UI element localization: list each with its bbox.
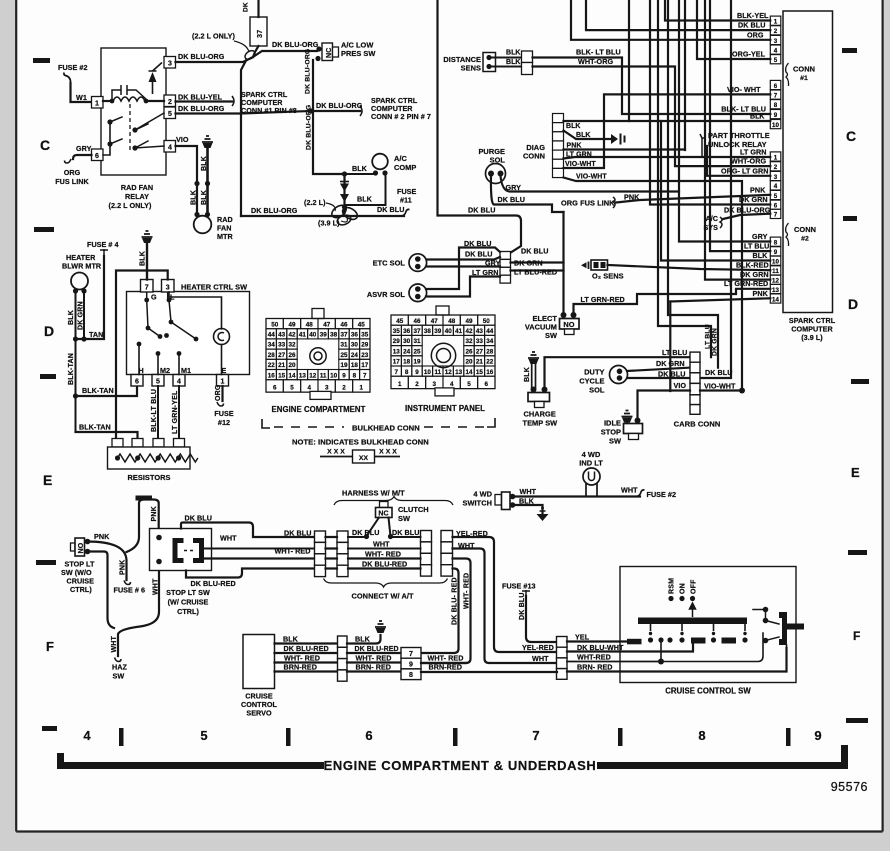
CONN1 pin 2 box [770, 26, 781, 35]
leader 2.2L arrow [326, 203, 335, 211]
svg-text:38: 38 [424, 328, 432, 335]
servo wire WHT-RED [275, 661, 338, 663]
wire into 37 from top [257, 0, 259, 17]
svg-text:12: 12 [309, 372, 317, 379]
svg-text:1: 1 [221, 379, 225, 386]
svg-text:10: 10 [772, 122, 779, 129]
svg-text:4: 4 [308, 385, 312, 392]
svg-text:39: 39 [320, 332, 328, 339]
svg-text:8: 8 [409, 672, 413, 679]
heater ctrl sw outline [127, 292, 250, 375]
svg-text:SOL: SOL [589, 386, 605, 395]
svg-text:(3.9 L): (3.9 L) [318, 219, 340, 228]
relay pole column [103, 122, 110, 155]
svg-text:D: D [848, 296, 858, 312]
fuse #2 right hook [635, 490, 645, 497]
idle stop sw body [624, 424, 643, 434]
conn2 brace [786, 223, 789, 246]
cruise selector arrow [690, 603, 696, 617]
svg-text:DK BLU-RED: DK BLU-RED [362, 560, 407, 569]
CONN2 pin 1 box [770, 152, 781, 161]
relay wire coil to pin2 [146, 100, 164, 102]
svg-text:BLK-LT BLU: BLK-LT BLU [151, 389, 158, 432]
cruise right dot low [763, 638, 769, 644]
relay pin 1 box [92, 97, 104, 109]
svg-text:41: 41 [455, 328, 463, 335]
svg-text:VIO-WHT: VIO-WHT [565, 161, 596, 168]
svg-text:6: 6 [135, 379, 139, 386]
cruise row dot 2 [667, 637, 672, 642]
svg-text:26: 26 [465, 348, 473, 355]
svg-text:DK BLU-ORG: DK BLU-ORG [178, 52, 225, 61]
svg-text:WHT-RED: WHT-RED [577, 653, 611, 662]
inline column A cell 1 [315, 531, 326, 542]
svg-text:3: 3 [774, 38, 778, 45]
svg-text:MTR: MTR [217, 232, 233, 241]
svg-text:9: 9 [415, 369, 419, 376]
row marker dash left C [33, 58, 50, 63]
etc terminal bottom [415, 264, 421, 270]
svg-text:CLUTCH: CLUTCH [398, 505, 429, 514]
svg-text:DK BLU-YEL: DK BLU-YEL [178, 93, 223, 102]
resistor block outline [108, 447, 191, 469]
relay pin 6 box [92, 149, 104, 161]
bus wire vertical x571 ORG [571, 0, 770, 40]
servo wire DK BLU-RED [275, 652, 338, 654]
O2 sensor body [591, 260, 608, 270]
svg-text:DK BLU: DK BLU [392, 528, 419, 537]
w-cruise dashed link [184, 550, 193, 552]
resistor node 1 [115, 455, 120, 460]
inline column C cell 3 [421, 553, 432, 564]
svg-text:42: 42 [288, 332, 296, 339]
engine compartment bulkhead grid center circle [310, 348, 326, 364]
svg-text:TAN: TAN [89, 330, 103, 339]
wire WHT row2 [204, 548, 337, 550]
wire DK BLU-WHT to cruise [567, 644, 693, 652]
org fus link break symbol [613, 197, 615, 208]
svg-text:YEL: YEL [575, 633, 590, 642]
wire BRN-RED to cruise [567, 648, 787, 672]
cruise stem dot c small [712, 632, 715, 635]
svg-text:DK BLU-ORG: DK BLU-ORG [724, 206, 771, 215]
svg-text:DK BLU: DK BLU [377, 205, 404, 214]
svg-text:PNK: PNK [94, 532, 110, 541]
connector 798 cell 7 [401, 648, 421, 659]
svg-text:#2: #2 [801, 236, 809, 243]
svg-text:GRY: GRY [485, 259, 501, 268]
cruise left input stub [627, 639, 642, 645]
stop lt sw w/o cruise NO box [75, 538, 85, 556]
svg-text:IND LT: IND LT [579, 459, 603, 468]
svg-text:FUSE #13: FUSE #13 [502, 582, 536, 591]
CONN1 pin 8 box [770, 100, 781, 109]
svg-text:4: 4 [774, 47, 778, 54]
heater M1 dot [177, 351, 182, 356]
svg-text:CONN: CONN [793, 65, 815, 74]
svg-text:YEL-RED: YEL-RED [522, 643, 554, 652]
distance sens terminal 2 [486, 64, 491, 69]
carb conn cell 1 [690, 352, 700, 362]
svg-text:10: 10 [424, 369, 432, 376]
bus wire vertical x661 BLK pin10 [661, 121, 770, 261]
svg-text:NO: NO [563, 320, 574, 329]
svg-text:NO: NO [78, 542, 85, 553]
svg-text:6: 6 [774, 203, 778, 210]
svg-text:8: 8 [774, 240, 778, 247]
svg-text:RAD FAN: RAD FAN [121, 183, 153, 192]
no-cruise stud top [85, 539, 91, 545]
svg-text:8: 8 [698, 728, 705, 743]
svg-text:PNK: PNK [151, 506, 158, 521]
svg-text:35: 35 [393, 328, 401, 335]
svg-text:M1: M1 [181, 366, 191, 375]
svg-text:DK GRN: DK GRN [78, 301, 85, 330]
svg-text:40: 40 [309, 332, 317, 339]
wire WHT from NO bottom stud [88, 552, 115, 629]
wire DK BLU-RED row4 [186, 569, 315, 578]
cruise mid bar 2 [722, 638, 737, 644]
svg-text:6: 6 [774, 83, 778, 90]
svg-text:39: 39 [434, 328, 442, 335]
svg-text:IDLE: IDLE [604, 419, 621, 428]
svg-text:DK BLU-ORG: DK BLU-ORG [272, 40, 319, 49]
svg-text:12: 12 [445, 369, 453, 376]
wire 37 to junction [253, 46, 259, 57]
cruise mid bar 1 [691, 638, 706, 644]
svg-text:(3.9 L): (3.9 L) [801, 333, 823, 342]
distance inline connector cell 2 [522, 63, 533, 75]
relay contact stub a [110, 117, 122, 122]
svg-text:22: 22 [268, 362, 276, 369]
svg-text:9: 9 [409, 662, 413, 669]
distance inline connector cell 1 [522, 51, 533, 63]
resistor zigzag element [118, 454, 198, 462]
svg-text:CONNECT W/ A/T: CONNECT W/ A/T [352, 592, 414, 601]
ground triangle 4wd [537, 514, 549, 521]
svg-text:FUSE #2: FUSE #2 [58, 63, 88, 72]
svg-text:STOP: STOP [601, 428, 621, 437]
svg-text:31: 31 [413, 338, 421, 345]
svg-text:31: 31 [340, 342, 348, 349]
duty terminal top [617, 369, 623, 375]
duty terminal bottom [617, 375, 623, 381]
svg-text:DK GRN: DK GRN [656, 359, 685, 368]
svg-text:13: 13 [299, 372, 307, 379]
wire blwr DK GRN [83, 291, 85, 339]
wire DK BLU clutch right [391, 536, 421, 538]
servo inline column cell 1 [338, 636, 348, 647]
svg-text:32: 32 [288, 342, 296, 349]
svg-text:COMP: COMP [394, 163, 416, 172]
relay contact c [107, 141, 112, 146]
svg-text:BLK: BLK [506, 50, 521, 57]
svg-text:ORG: ORG [215, 384, 222, 401]
svg-text:44: 44 [486, 328, 494, 335]
svg-text:BRN-RED: BRN-RED [429, 663, 463, 672]
svg-text:3: 3 [325, 385, 329, 392]
svg-text:DK BLU: DK BLU [705, 368, 732, 377]
svg-text:95576: 95576 [831, 780, 868, 794]
diag conn cell 5 [553, 150, 564, 159]
wire AC branch vertical [343, 174, 345, 213]
svg-text:ORG-YEL: ORG-YEL [732, 50, 766, 59]
cruise stem dot c [711, 637, 716, 642]
blwr terminal left [73, 288, 78, 293]
diag wire BLK to conn1 pin10 [564, 120, 771, 122]
CONN1 pin 3 box [770, 35, 781, 44]
bus wire vertical x629 [628, 0, 630, 121]
svg-text:1: 1 [774, 19, 778, 26]
heater M2 stem [157, 354, 159, 375]
wire DK BLU elect vac drop [562, 212, 564, 313]
svg-text:CTRL): CTRL) [177, 607, 199, 616]
svg-text:BRN- RED: BRN- RED [356, 663, 392, 672]
heater M2 dot [156, 351, 161, 356]
heater pin 3 box [162, 280, 175, 293]
svg-text:HEATER CTRL SW: HEATER CTRL SW [181, 283, 247, 292]
svg-text:2: 2 [774, 164, 778, 171]
CONN2 pin 13 box [770, 284, 781, 293]
servo inline column cell 4 [338, 670, 348, 681]
conn1 brace [786, 63, 789, 86]
wire 798 cell9 right [421, 662, 466, 664]
bus wire vertical x685 [684, 0, 686, 150]
CONN2 pin 2 box [770, 162, 781, 171]
svg-text:3: 3 [166, 285, 170, 292]
svg-text:FUS LINK: FUS LINK [55, 177, 89, 186]
purge terminal left [488, 171, 494, 177]
wire YEL to cruise [567, 640, 627, 642]
ground symbol sideways at diag [611, 134, 618, 144]
svg-text:17: 17 [361, 362, 369, 369]
svg-text:8: 8 [774, 102, 778, 109]
svg-text:6: 6 [273, 385, 277, 392]
relay contact b [132, 127, 137, 132]
w-cruise contact right [193, 538, 204, 563]
inline column B cell 2 [337, 542, 348, 553]
svg-text:DK BLU-ORG: DK BLU-ORG [305, 49, 312, 94]
idle stop sw tab [629, 434, 639, 440]
svg-text:21: 21 [476, 359, 484, 366]
svg-text:BLK: BLK [506, 59, 521, 66]
resistor tab 2 [132, 439, 143, 448]
svg-text:LT GRN-RED: LT GRN-RED [724, 279, 768, 288]
bulkhead conn dashed bracket left [262, 419, 270, 428]
svg-text:43: 43 [278, 332, 286, 339]
cruise inline column cell 4 [557, 669, 568, 680]
wire DK BLU-RED col2-col3 [348, 567, 421, 569]
svg-text:G: G [151, 293, 157, 302]
cruise right dot top [763, 607, 769, 613]
svg-text:BLK- LT BLU: BLK- LT BLU [721, 105, 766, 114]
svg-text:CYCLE: CYCLE [579, 377, 604, 386]
no-cruise stud bottom [85, 549, 91, 555]
relay contact a [107, 119, 112, 124]
wire DK BLU clutch left [348, 536, 366, 538]
CONN2 pin 8 box [770, 237, 781, 246]
svg-text:VIO- WHT: VIO- WHT [727, 85, 761, 94]
svg-text:WHT: WHT [373, 540, 390, 549]
wire DK BLU-RED down [422, 569, 459, 654]
bulkhead 4cell connector cell 3 [500, 267, 511, 275]
svg-text:50: 50 [271, 321, 279, 328]
relay contact d [132, 145, 137, 150]
wire heater pin3 feed from resistors [116, 271, 168, 441]
svg-text:5: 5 [168, 111, 172, 118]
CONN1 pin 7 box [770, 90, 781, 99]
svg-text:BLK- LT BLU: BLK- LT BLU [576, 48, 621, 57]
svg-text:6: 6 [365, 728, 372, 743]
cruise inline column cell 1 [557, 637, 568, 648]
svg-text:BLK: BLK [753, 251, 769, 260]
wire PNK to conn2 pin5 [616, 195, 770, 203]
asvr sol circle [409, 284, 427, 302]
CONN1 pin 10 box [770, 120, 781, 129]
diag wire PNK [564, 148, 686, 150]
column tick 4-5 [119, 728, 124, 746]
elect vac stud right [571, 312, 577, 318]
row marker dash left F-bottom [42, 726, 57, 731]
svg-text:C: C [846, 128, 856, 144]
wire WHT-RED col2-col3 [348, 557, 421, 559]
svg-text:ORG- LT GRN: ORG- LT GRN [721, 167, 769, 176]
svg-text:BLK: BLK [201, 156, 208, 171]
svg-text:DK BLU-RED: DK BLU-RED [191, 579, 236, 588]
svg-text:2: 2 [342, 385, 346, 392]
junction at BLK left [342, 171, 347, 176]
elect vac bottom tab [565, 329, 575, 335]
svg-text:LT BLU: LT BLU [744, 242, 769, 251]
svg-text:21: 21 [278, 362, 286, 369]
engine compartment bulkhead grid [266, 319, 370, 393]
svg-text:5: 5 [774, 57, 778, 64]
purge terminal right [498, 171, 504, 177]
row marker dash right C [842, 48, 857, 53]
distance sens terminal 1 [486, 55, 491, 60]
svg-text:BLK-YEL: BLK-YEL [737, 11, 769, 20]
cruise right dot mid [763, 618, 769, 624]
rad fan motor terminal right [205, 212, 210, 217]
svg-text:LT BLU: LT BLU [705, 324, 712, 349]
svg-text:FUSE: FUSE [214, 409, 234, 418]
svg-text:DK BLU: DK BLU [738, 21, 765, 30]
inline column A cell 4 [315, 565, 326, 576]
svg-text:50: 50 [483, 318, 491, 325]
svg-text:WHT: WHT [111, 635, 118, 652]
svg-text:XX: XX [359, 455, 369, 462]
cruise main contact bar [638, 618, 747, 625]
svg-text:BULKHEAD CONN: BULKHEAD CONN [352, 424, 420, 433]
ground above cruise BLK [375, 621, 386, 627]
servo wire BRN-RED [275, 670, 338, 672]
svg-text:10: 10 [330, 372, 338, 379]
CONN2 pin 5 box [770, 190, 781, 199]
svg-text:DK BLU: DK BLU [464, 239, 491, 248]
svg-text:RSM: RSM [669, 578, 676, 594]
svg-text:26: 26 [288, 352, 296, 359]
harness loops 2.2L/3.9L [330, 203, 349, 220]
rad fan motor terminal left [194, 212, 199, 217]
inline column B cell 3 [337, 554, 348, 565]
svg-text:WHT: WHT [532, 654, 549, 663]
svg-text:CRUISE CONTROL SW: CRUISE CONTROL SW [665, 687, 751, 696]
junction AC branch [342, 204, 347, 209]
svg-text:BLWR MTR: BLWR MTR [62, 262, 102, 271]
svg-text:BLK: BLK [201, 190, 208, 205]
svg-text:13: 13 [772, 287, 779, 294]
cruise inline column cell 2 [557, 647, 568, 658]
CONN2 pin 3 box [770, 171, 781, 180]
fuse #6 hook [124, 581, 131, 585]
svg-text:20: 20 [465, 359, 473, 366]
idle stop gnd stem [626, 421, 628, 424]
blwr terminal right [81, 288, 86, 293]
svg-text:TEMP SW: TEMP SW [523, 419, 558, 428]
svg-text:47: 47 [431, 318, 439, 325]
wire VIO idle stop to carb [638, 391, 691, 420]
svg-text:ASVR SOL: ASVR SOL [367, 290, 406, 299]
cruise stem dot a small [649, 632, 652, 635]
diag wire LT GRN to conn2 pin1 [564, 157, 771, 159]
svg-text:34: 34 [486, 338, 494, 345]
svg-text:WHT: WHT [220, 534, 237, 543]
bulkhead dashed line right [424, 426, 490, 428]
A/C compressor circle [372, 154, 388, 170]
svg-text:4: 4 [177, 379, 181, 386]
svg-text:44: 44 [268, 332, 276, 339]
junction VIO-WHT [739, 388, 745, 394]
brace connect w/at [324, 579, 448, 588]
ground above charge temp [528, 352, 539, 358]
svg-text:28: 28 [486, 348, 494, 355]
inline column B cell 4 [337, 565, 348, 576]
small dash below resistors [136, 496, 153, 501]
svg-text:A/C: A/C [705, 214, 718, 223]
cruise stem dot d small [743, 632, 746, 635]
svg-text:BLK: BLK [140, 251, 147, 266]
resistor node 2 [135, 455, 140, 460]
svg-text:DK BLU: DK BLU [185, 514, 212, 523]
wire PNK drop to VIO run [669, 302, 671, 392]
bus wire vertical x705 DK GRN pin12 [705, 0, 770, 280]
relay contact stub c [110, 139, 122, 144]
w-cruise terminal 2 [156, 559, 162, 565]
svg-text:CONN: CONN [794, 225, 816, 234]
svg-text:15: 15 [476, 369, 484, 376]
duty cycle sol circle [610, 366, 628, 384]
svg-text:5: 5 [156, 379, 160, 386]
svg-text:3: 3 [774, 174, 778, 181]
relay pin 3 box [164, 57, 176, 69]
svg-text:33: 33 [278, 342, 286, 349]
ground above idle stop [622, 411, 633, 417]
wire DK GRN duty to carb [627, 368, 690, 371]
wire BLK-RED O2 to conn2 pin11 [608, 265, 771, 270]
fuse #2 symbol [64, 73, 71, 84]
svg-text:49: 49 [288, 321, 296, 328]
svg-text:29: 29 [393, 338, 401, 345]
relay pin 5 box [164, 107, 176, 119]
svg-text:STOP LT SW: STOP LT SW [166, 588, 210, 597]
svg-text:BLK: BLK [750, 114, 765, 121]
bus wire vertical x658 to carb LT BLU [658, 0, 711, 357]
diag conn cell 3 [553, 132, 564, 141]
svg-text:#12: #12 [218, 418, 230, 427]
relay internal diode [149, 72, 157, 82]
NC right tab [333, 47, 339, 57]
row marker dash right CD [843, 216, 857, 221]
